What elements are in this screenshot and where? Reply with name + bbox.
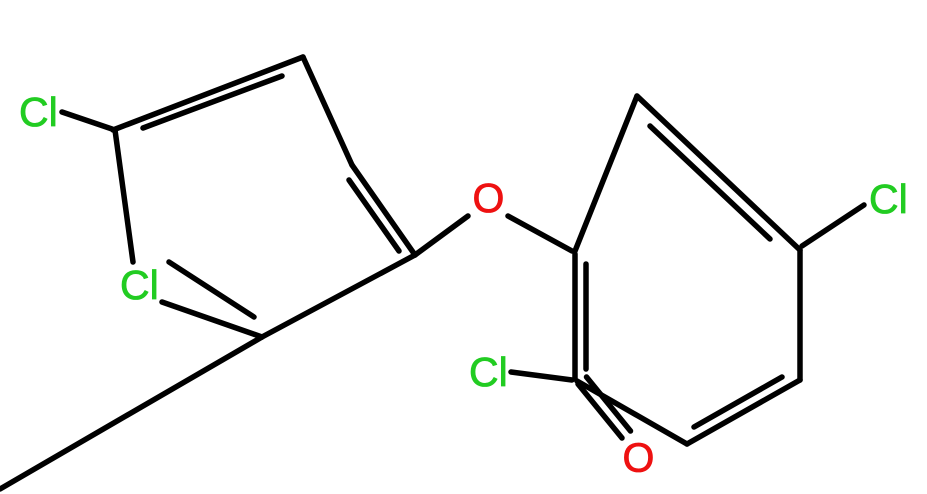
bond corner chain: [0, 337, 262, 489]
bond C=O main: [578, 384, 622, 438]
bond ring edge P2-P3: [303, 57, 352, 165]
bond C=O partner: [587, 377, 631, 431]
bond ring edge W2-W1: [637, 96, 800, 250]
bond ring edge W1-W6: [575, 96, 637, 251]
bond Cl4-C: [511, 372, 572, 380]
bond Cl1-C: [62, 112, 112, 129]
bond ring edge W5-W4: [577, 381, 687, 444]
bond ring edge W3-W2: [797, 250, 803, 380]
svg-text:Cl: Cl: [869, 176, 908, 222]
bond ring edge P5-P6: [162, 302, 262, 337]
svg-text:Cl: Cl: [19, 89, 58, 135]
bond ring edge W6-W5: [572, 254, 578, 379]
svg-text:Cl: Cl: [469, 349, 508, 395]
bond O1 right: [508, 216, 572, 251]
bond ring edge P6-P1: [115, 130, 133, 262]
bond inner double W2=W1: [650, 126, 770, 239]
bond inner double P3=P4: [349, 180, 399, 251]
bond ring edge W4-W3: [687, 380, 800, 444]
bond inner double W6=W5: [583, 264, 589, 369]
svg-text:Cl: Cl: [120, 262, 159, 308]
bond inner double W4=W3: [694, 377, 782, 427]
svg-text:O: O: [473, 175, 505, 221]
bond inner double P5=P6: [169, 262, 254, 317]
bond ring edge P1-P2: [113, 57, 303, 130]
bond Cl3-C: [802, 205, 864, 246]
bond ring edge P3-P4: [352, 165, 415, 255]
svg-text:O: O: [623, 435, 655, 481]
bond O1 left: [415, 216, 468, 255]
bond inner double P1=P2: [143, 76, 282, 128]
bond ring edge P4-P5: [262, 255, 415, 337]
